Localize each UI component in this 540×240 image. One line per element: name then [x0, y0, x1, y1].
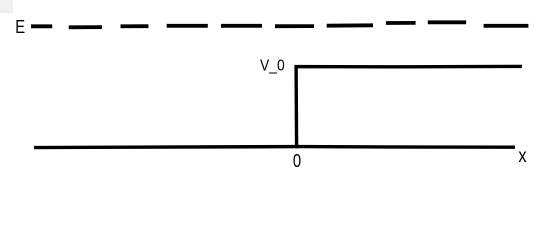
x axis [34, 147, 515, 148]
energy level E dashed line [31, 22, 528, 27]
svg-text:0: 0 [293, 150, 301, 171]
svg-text:E: E [15, 16, 25, 37]
svg-text:V_0: V_0 [260, 58, 285, 75]
faint corner smudge [0, 0, 13, 13]
svg-text:x: x [518, 145, 526, 167]
potential step V(x) [296, 66, 522, 148]
